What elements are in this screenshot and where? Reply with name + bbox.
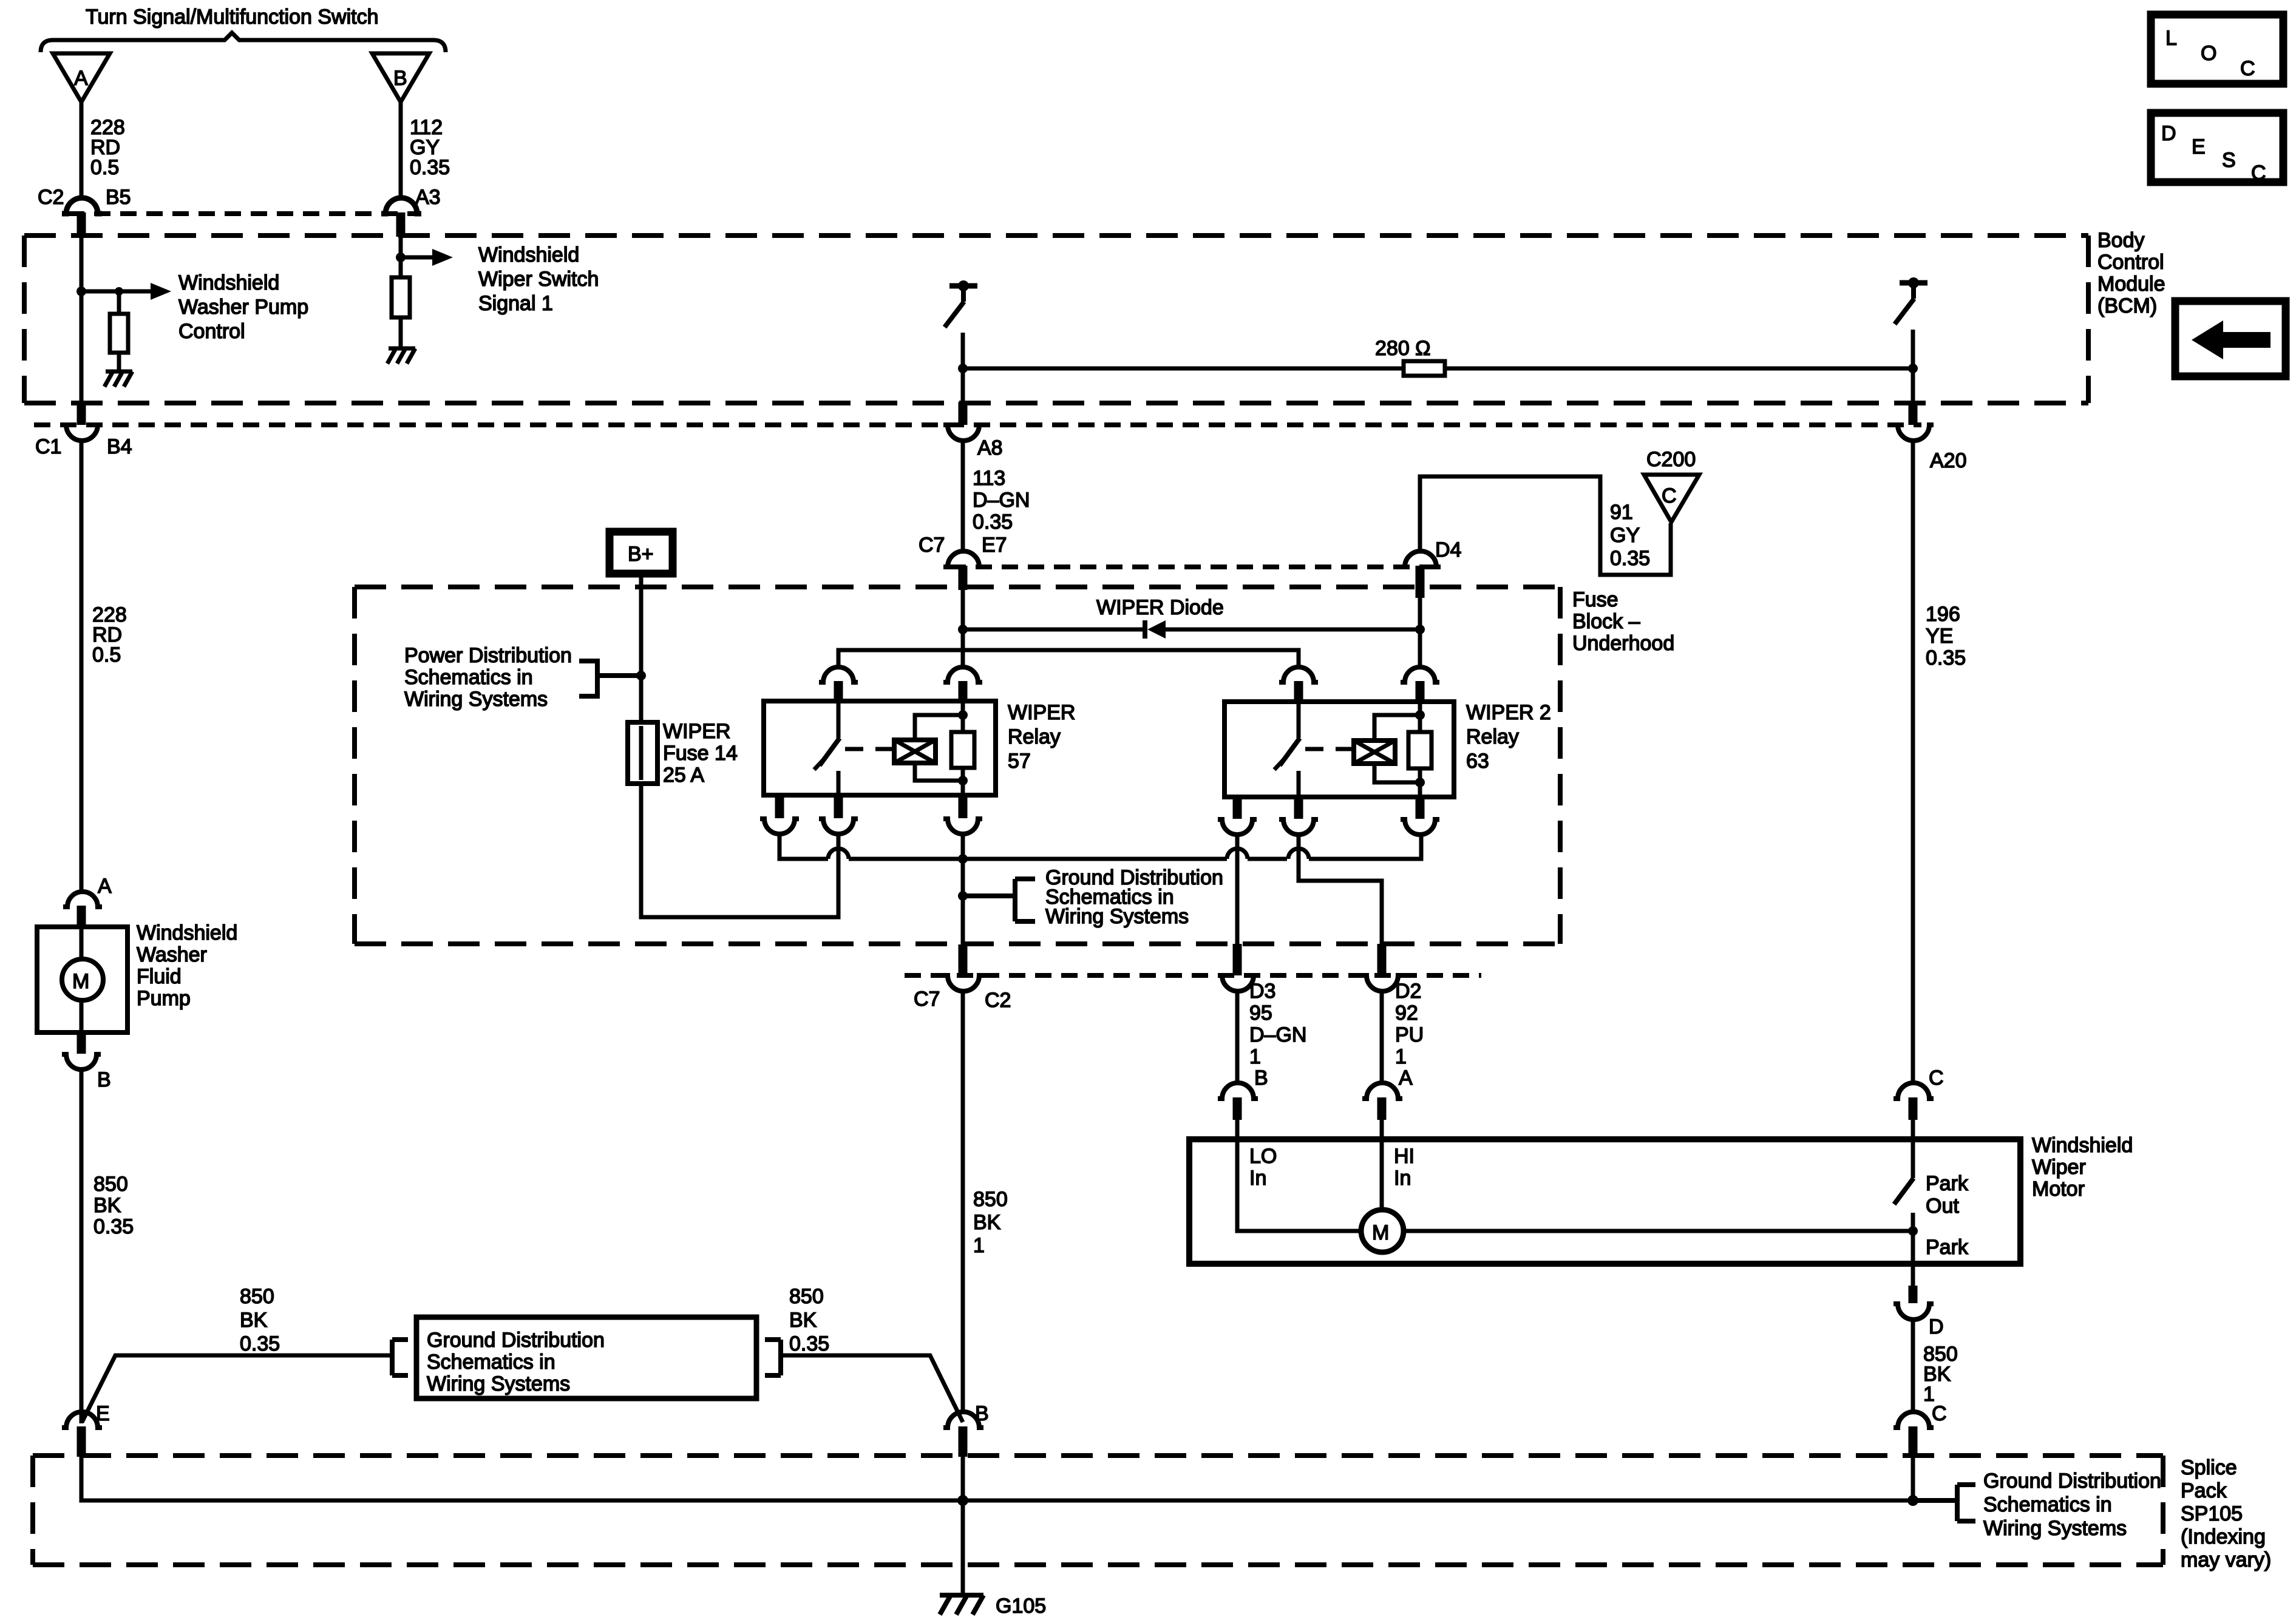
connector B (splice) arc <box>943 1412 983 1428</box>
bracket ground distribution left <box>392 1340 408 1375</box>
wire fuse 14 output to relay 57 switch contact <box>641 784 838 917</box>
svg-text:A: A <box>1399 1066 1413 1090</box>
dotted connector line C7/E7-D4 <box>949 564 1434 569</box>
connector C (wiper motor park) arc <box>1894 1083 1934 1099</box>
wire 113 D-GN from A8 to C7/E7 <box>961 441 965 552</box>
relay 63 top-left pin arc <box>1279 667 1318 682</box>
wire branch to wiper switch signal arrow <box>401 256 432 260</box>
resistor (wiper switch signal pull-down) <box>392 277 410 348</box>
svg-text:B4: B4 <box>107 435 132 458</box>
relay 63 bottom-middle pin cup <box>1279 819 1318 835</box>
relay 63 top-left pin bar <box>1294 681 1303 703</box>
resistor 280 ohm <box>1404 361 1445 376</box>
connector C (wiper motor park) pin bar <box>1909 1097 1918 1120</box>
relay 63 bottom-right pin cup <box>1401 819 1439 835</box>
connector D3 cup arc <box>1218 975 1258 991</box>
connector A8 cup arc <box>943 425 983 441</box>
svg-text:O: O <box>2201 42 2216 65</box>
junction dot ground distribution branch <box>958 891 968 901</box>
wire B+ to fuse 14 <box>639 574 644 722</box>
connector A (wiper motor HI) pin bar <box>1377 1097 1387 1120</box>
connector triangle C200 <box>1644 475 1699 522</box>
wire main 850 BK 1 to splice B <box>961 991 965 1412</box>
svg-text:B: B <box>1254 1066 1268 1090</box>
wire 91 GY from D4 up to C200 <box>1420 476 1671 575</box>
junction dot relay 57 coil top <box>958 710 968 720</box>
wire splice bus <box>81 1457 1913 1500</box>
back-arrow legend box <box>2175 301 2286 376</box>
connector D4 arc <box>1401 551 1441 567</box>
connector C7/C2 pin bar <box>959 944 968 975</box>
wire motor HI input <box>1380 1120 1384 1210</box>
ground symbol (wiper switch signal) <box>387 348 415 364</box>
connector D2 cup arc <box>1362 975 1402 991</box>
washer pump internal wire <box>80 927 84 1032</box>
BCM internal switch (wiper on/off) left <box>945 280 977 403</box>
connector A (wiper motor HI) arc <box>1362 1083 1402 1099</box>
wire hop over relay 63 middle pin wire <box>1288 849 1309 859</box>
svg-text:C: C <box>1662 484 1677 507</box>
svg-text:WIPER Diode: WIPER Diode <box>1096 596 1224 619</box>
svg-text:B: B <box>97 1068 111 1091</box>
junction dot at resistor branch <box>115 287 123 296</box>
junction dot ground bus at main wire <box>958 854 968 864</box>
relay 63 coil bottom wire <box>1374 764 1420 782</box>
svg-text:D: D <box>1929 1315 1944 1338</box>
connector C2/B5 pin bar <box>77 212 86 237</box>
wire relay 63 switch throw to D2 <box>1299 835 1382 944</box>
arrowhead windshield washer pump control <box>151 283 171 300</box>
wire BCM internal horizontal (switch to switch) <box>963 367 1913 371</box>
connector triangle A (turn signal switch) <box>53 53 110 102</box>
svg-text:B5: B5 <box>106 186 131 209</box>
ground symbol G105 <box>940 1595 983 1615</box>
connector C (splice) arc <box>1894 1412 1934 1428</box>
wire relay feed line (to both relay switch pins) <box>838 650 1299 668</box>
wire 228 RD from C1 down to washer pump <box>80 441 84 892</box>
junction dot park <box>1908 1226 1918 1236</box>
svg-text:D: D <box>2161 122 2176 145</box>
relay 63 bottom-left pin bar <box>1233 797 1242 819</box>
dotted connector line C2/B5-A3 <box>68 211 420 216</box>
svg-text:B: B <box>393 67 407 90</box>
relay 57 top-left pin arc <box>819 667 858 682</box>
relay 63 switch <box>1274 703 1300 797</box>
relay 57 bottom-left pin bar <box>775 795 784 818</box>
wire diode line <box>963 628 1420 632</box>
connector C1/B4 cup arc <box>62 425 102 441</box>
wire hop over D3 wire <box>1227 849 1248 859</box>
relay 63 coil <box>1354 741 1395 764</box>
bracket ground distribution (fuse block) <box>963 879 1035 921</box>
ground symbol (washer pump control) <box>104 371 132 387</box>
svg-text:D4: D4 <box>1435 538 1461 561</box>
svg-text:Park: Park <box>1926 1236 1969 1259</box>
svg-text:B+: B+ <box>628 543 654 566</box>
wire splice B drop <box>961 1457 965 1500</box>
dotted connector line C7/C2-D3-D2 <box>905 973 1481 978</box>
relay 57 bottom-left pin cup <box>760 819 799 834</box>
junction dot BCM switch to 280 ohm line <box>958 364 968 373</box>
svg-text:C: C <box>2240 57 2255 80</box>
svg-text:C1: C1 <box>35 435 61 458</box>
bracket power distribution <box>579 661 641 696</box>
junction dot splice at B <box>957 1495 968 1506</box>
LOC legend box <box>2151 15 2283 84</box>
svg-text:A8: A8 <box>977 436 1003 459</box>
wire 850 BK washer pump to splice E <box>80 1070 84 1423</box>
wire branch to washer pump control arrow <box>81 290 151 294</box>
svg-text:C2: C2 <box>38 186 64 209</box>
svg-text:E: E <box>2192 135 2206 158</box>
svg-text:C: C <box>2251 161 2266 185</box>
fuse block underhood dashed box <box>355 587 1560 944</box>
wire D2 to motor connector A <box>1380 991 1384 1083</box>
DESC legend box <box>2151 113 2283 185</box>
relay 57 internal resistor <box>951 703 974 795</box>
dotted connector line C1/B4-A8-A20 <box>34 422 1921 427</box>
relay 63 internal resistor <box>1408 703 1432 797</box>
relay 57 actuation dashed line <box>845 747 897 751</box>
relay 63 coil top wire <box>1374 715 1420 741</box>
wire motor to park junction <box>1404 1229 1913 1233</box>
connector triangle B (turn signal switch) <box>372 53 429 102</box>
connector A20 cup arc <box>1894 425 1934 441</box>
relay 63 bottom-right pin bar <box>1416 797 1425 819</box>
wire relay 63 NC contact to D3 <box>1235 835 1240 944</box>
motor M circle (washer pump) <box>62 959 103 1000</box>
bracket ground distribution right <box>765 1340 781 1375</box>
svg-text:C: C <box>1932 1402 1947 1425</box>
wire park output to connector D <box>1911 1264 1915 1286</box>
relay 57 top-right pin arc <box>943 667 982 682</box>
svg-text:C: C <box>1929 1066 1944 1090</box>
relay 57 top-left pin bar <box>834 681 843 703</box>
connector D4 pin bar <box>1416 566 1425 598</box>
connector C7/E7 pin bar <box>959 566 968 590</box>
relay 63 top-right pin arc <box>1401 667 1439 682</box>
relay 63 box <box>1224 702 1454 797</box>
junction dot power distribution branch <box>636 671 646 680</box>
wire diagonal branch to ground distribution <box>82 1355 392 1422</box>
diode WIPER Diode <box>1145 620 1166 639</box>
connector B (wiper motor LO) pin bar <box>1233 1097 1242 1120</box>
svg-text:C7: C7 <box>914 988 940 1011</box>
wire main 850 feed: C7/E7 to diode node <box>961 590 965 668</box>
connector B (wiper motor LO) arc <box>1218 1083 1258 1099</box>
connector E (splice) arc <box>62 1412 102 1428</box>
svg-text:A: A <box>98 875 112 898</box>
connector D2 pin bar <box>1377 944 1387 975</box>
arrowhead windshield wiper switch signal 1 <box>432 249 453 266</box>
svg-text:280 Ω: 280 Ω <box>1375 337 1431 360</box>
svg-text:A20: A20 <box>1930 449 1967 472</box>
svg-text:Turn Signal/Multifunction Swit: Turn Signal/Multifunction Switch <box>86 5 379 29</box>
BCM internal switch (wiper 2) right <box>1895 277 1927 403</box>
relay 63 bottom-left pin cup <box>1218 819 1257 835</box>
connector A3 pin bar <box>396 212 406 237</box>
svg-text:G105: G105 <box>996 1595 1046 1617</box>
wire D to splice connector C <box>1911 1320 1915 1412</box>
windshield washer fluid pump box <box>37 927 127 1032</box>
relay 57 coil bottom wire <box>915 763 963 781</box>
relay 57 coil <box>894 740 936 763</box>
washer pump connector B pin bar <box>77 1032 86 1054</box>
fuse WIPER Fuse 14 25A <box>628 722 657 784</box>
wire A inside BCM down to washer pump control node <box>80 237 84 403</box>
relay 57 bottom-middle pin bar <box>834 795 843 818</box>
park switch <box>1894 1120 1914 1264</box>
wire to G105 ground <box>961 1500 965 1595</box>
connector C7/E7 arc <box>943 551 983 567</box>
relay 57 box <box>764 701 996 795</box>
wire ground bus relay 57 NC to relay 63 coil return <box>779 834 1421 859</box>
junction dot splice at C <box>1907 1495 1918 1506</box>
connector D pin bar <box>1909 1286 1918 1303</box>
relay 63 actuation dashed line <box>1305 747 1357 751</box>
brace for Turn Signal/Multifunction Switch <box>41 33 446 52</box>
connector B (splice) pin bar <box>959 1426 968 1457</box>
windshield wiper motor box <box>1189 1139 2020 1264</box>
junction dot at washer pump control branch <box>76 286 86 296</box>
junction dot BCM right switch node <box>1908 364 1918 373</box>
connector C2/B5 arc <box>62 198 102 214</box>
connector A20 pin bar <box>1909 402 1918 425</box>
connector A8 pin bar <box>959 402 968 425</box>
svg-text:M: M <box>72 970 89 993</box>
svg-text:A: A <box>74 67 88 90</box>
connector E (splice) pin bar <box>77 1426 86 1457</box>
connector D cup arc <box>1894 1304 1934 1320</box>
motor M circle (wiper) <box>1361 1210 1404 1252</box>
wire motor LO input <box>1237 1120 1361 1231</box>
junction dot relay 57 coil bottom <box>958 776 968 785</box>
relay 57 bottom-right pin cup <box>943 819 982 834</box>
splice pack SP105 dashed box <box>33 1456 2163 1565</box>
relay 57 switch <box>814 703 840 795</box>
junction dot diode line left <box>958 625 968 634</box>
wire D4 to relay 63 coil pin <box>1418 598 1422 668</box>
washer pump connector A pin bar <box>77 906 86 927</box>
svg-text:M: M <box>1372 1221 1389 1244</box>
relay 57 bottom-middle pin cup <box>819 819 858 834</box>
svg-text:C7: C7 <box>919 534 945 557</box>
wire from triangle B to A3 <box>399 102 403 199</box>
relay 57 bottom-right pin bar <box>959 795 968 818</box>
wire ground distribution to splice B <box>781 1355 963 1422</box>
resistor (washer pump control pull-down) <box>110 291 128 371</box>
wire D3 to motor connector B <box>1235 991 1240 1083</box>
connector D3 pin bar <box>1233 944 1242 975</box>
wire hop over fuse riser <box>828 849 849 859</box>
ground distribution schematics box <box>416 1317 756 1398</box>
connector C7/C2 cup arc <box>943 975 983 991</box>
wire 196 YE from A20 down to wiper motor C <box>1911 441 1915 1083</box>
svg-text:E7: E7 <box>982 534 1007 557</box>
svg-text:S: S <box>2222 149 2236 172</box>
junction dot wiper switch signal branch <box>396 253 406 262</box>
svg-text:C200: C200 <box>1646 448 1696 471</box>
svg-text:L: L <box>2165 27 2177 50</box>
washer pump connector A arc <box>63 892 102 907</box>
washer pump connector B cup arc <box>62 1054 101 1070</box>
bracket ground distribution (splice) <box>1913 1485 1975 1521</box>
relay 63 top-right pin bar <box>1416 681 1425 703</box>
svg-text:C2: C2 <box>985 989 1011 1012</box>
wire B inside BCM to wiper switch signal node <box>399 237 403 277</box>
relay 57 top-right pin bar <box>959 681 968 703</box>
connector C (splice) pin bar <box>1909 1426 1918 1457</box>
connector C1/B4 pin bar <box>77 402 86 425</box>
connector A3 arc <box>381 198 421 214</box>
wire main ground from relay 57 down through fuse block edge <box>961 834 965 947</box>
svg-text:A3: A3 <box>415 186 441 209</box>
wire from triangle A to C2/B5 <box>80 102 84 199</box>
junction dot diode line right <box>1415 625 1425 634</box>
B+ power symbol box <box>610 532 673 574</box>
junction dot relay 63 coil top <box>1415 710 1425 720</box>
junction dot relay 63 coil bottom <box>1415 778 1425 787</box>
BCM dashed box <box>24 236 2088 403</box>
wire splice C drop <box>1911 1457 1915 1500</box>
relay 57 coil top wire <box>915 715 963 740</box>
relay 63 bottom-middle pin bar <box>1294 797 1303 819</box>
